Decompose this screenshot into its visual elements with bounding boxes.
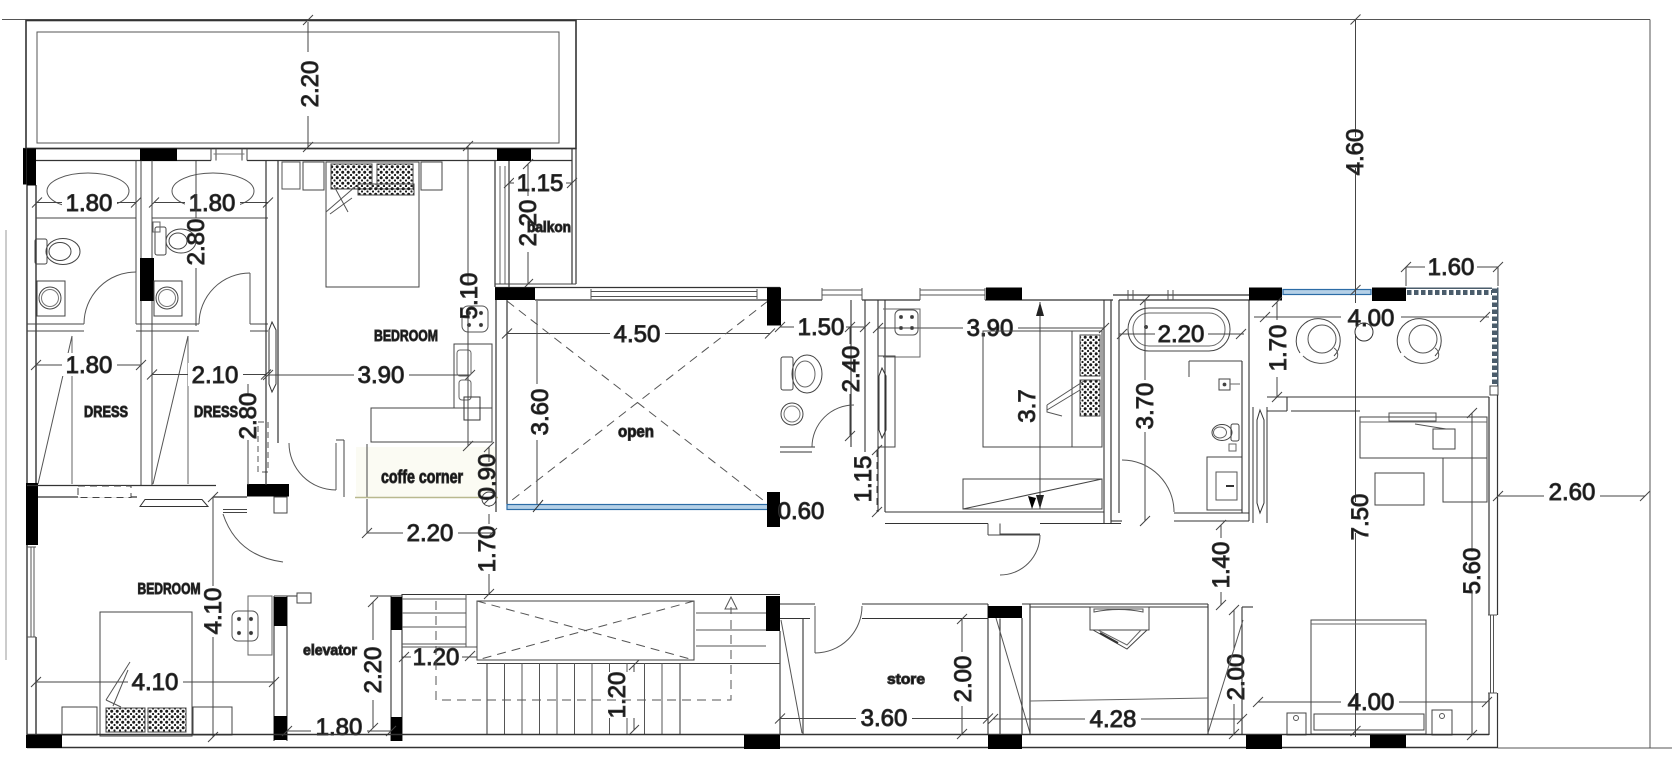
dashed path arrow bbox=[725, 597, 737, 609]
dim 4.28 bbox=[988, 714, 1247, 724]
dim 2.80 bath2 vertical bbox=[195, 161, 197, 218]
bedroom2 right wall bbox=[1104, 300, 1111, 523]
dim 1.50 wc bbox=[775, 322, 870, 332]
svg-text:4.60: 4.60 bbox=[1342, 129, 1369, 176]
open top black left bbox=[495, 288, 535, 301]
bath door arc bbox=[1122, 460, 1174, 512]
stairs right black bbox=[766, 596, 780, 631]
svg-text:1.80: 1.80 bbox=[316, 714, 363, 741]
toilet 1 bbox=[35, 239, 80, 265]
pocket door lens bbox=[1253, 407, 1267, 523]
crenellated top wall bbox=[1406, 288, 1492, 297]
svg-text:4.28: 4.28 bbox=[1090, 706, 1137, 733]
dim 3.60 store bbox=[775, 714, 993, 724]
svg-text:3.70: 3.70 bbox=[1132, 383, 1159, 430]
svg-text:1.60: 1.60 bbox=[1428, 254, 1475, 281]
svg-text:3.90: 3.90 bbox=[358, 362, 405, 389]
svg-text:1.20: 1.20 bbox=[604, 672, 631, 719]
bed1 bbox=[62, 612, 232, 736]
left wall black upper bbox=[27, 149, 36, 186]
dim 2.00 store bbox=[957, 614, 967, 739]
wc door arc bbox=[812, 405, 854, 447]
dim 1.70 hall bbox=[484, 514, 494, 599]
wardrobe dress2 bbox=[187, 336, 189, 484]
bed2 bbox=[983, 331, 1102, 447]
dim 2.40 wc bbox=[845, 322, 855, 441]
wall black B bbox=[140, 149, 177, 162]
stairs upper-right treads bbox=[696, 613, 766, 646]
elevator top rect bbox=[297, 593, 311, 603]
sink oval 1 bbox=[47, 173, 129, 209]
dim 2.80 dress2 vertical bbox=[247, 384, 249, 394]
dim 3.90 bedroom bbox=[263, 370, 475, 380]
svg-text:3.60: 3.60 bbox=[861, 705, 908, 732]
dim 2.20 elevator bbox=[368, 597, 378, 733]
bedroom left wall bbox=[266, 161, 278, 486]
dressing top black left bbox=[1249, 288, 1282, 301]
round chair 2 bbox=[1397, 319, 1441, 364]
open top wall bbox=[495, 288, 780, 301]
svg-text:2.00: 2.00 bbox=[950, 656, 977, 703]
terrace inner bbox=[37, 32, 559, 143]
terrace outer bbox=[26, 21, 576, 149]
dim 4.50 bbox=[502, 329, 775, 339]
bath top jambs bbox=[1128, 290, 1173, 300]
wc bottom wall bbox=[780, 447, 815, 452]
dim 1.80 bath2 bbox=[149, 198, 273, 208]
desk chair bedroom bbox=[462, 306, 488, 332]
counters bbox=[36, 217, 136, 219]
dim 2.20 balkon bbox=[523, 159, 533, 289]
wc toilet bbox=[781, 355, 822, 393]
dim 4.00 master bed bbox=[1253, 697, 1492, 707]
door diagonal dress1 bbox=[38, 336, 72, 484]
master bath left wall bbox=[1111, 300, 1119, 521]
wc top window bbox=[822, 288, 862, 300]
svg-text:0.90: 0.90 bbox=[474, 454, 501, 501]
svg-text:balkon: balkon bbox=[527, 219, 571, 236]
dashed wardrobe in wall bbox=[78, 486, 131, 498]
bathroom1 interior bbox=[27, 161, 268, 332]
elevator walls bbox=[274, 594, 402, 741]
store top-left black bbox=[767, 596, 780, 631]
bed top bedroom bbox=[303, 162, 442, 287]
svg-text:2.60: 2.60 bbox=[1549, 479, 1596, 506]
master bed bbox=[1287, 620, 1452, 735]
dim 1.20 lower rotated bbox=[629, 660, 639, 735]
svg-text:2.10: 2.10 bbox=[192, 362, 239, 389]
desk bedroom bbox=[371, 344, 492, 442]
bed2 top window bbox=[920, 288, 985, 300]
dim 1.20 upper bbox=[399, 651, 477, 662]
svg-text:2.20: 2.20 bbox=[297, 61, 324, 108]
bedroom2 bottom wall bbox=[885, 512, 1121, 524]
dim 3.70 bath bbox=[1140, 295, 1150, 526]
dim 3.90 bedroom2 bbox=[873, 323, 1109, 333]
dim 0.60 bbox=[781, 500, 827, 521]
svg-text:1.40: 1.40 bbox=[1208, 542, 1235, 589]
bedroom2 left wall bbox=[878, 300, 885, 512]
svg-text:2.20: 2.20 bbox=[360, 647, 387, 694]
dim 1.80 elevator bbox=[282, 726, 396, 736]
bed2 bench bbox=[963, 479, 1102, 509]
stairs lower treads bbox=[487, 663, 680, 734]
nook diagonals bbox=[1208, 620, 1243, 733]
svg-text:1.80: 1.80 bbox=[66, 190, 113, 217]
crenellated right wall bbox=[1490, 288, 1499, 395]
bedroom1 door leaf bbox=[223, 510, 247, 513]
dress partition bbox=[141, 331, 152, 485]
black block open bottom right bbox=[767, 492, 780, 527]
svg-text:4.00: 4.00 bbox=[1348, 689, 1395, 716]
svg-text:4.50: 4.50 bbox=[614, 321, 661, 348]
svg-text:5.10: 5.10 bbox=[456, 273, 483, 320]
dim 2.10 dress2 bbox=[147, 370, 271, 380]
svg-text:2.80: 2.80 bbox=[183, 219, 210, 266]
svg-text:4.10: 4.10 bbox=[132, 669, 179, 696]
dim 5.60 bbox=[1467, 408, 1477, 740]
dashed shaft dress2 bbox=[258, 422, 268, 472]
bath toilet bbox=[1212, 424, 1239, 451]
dressing top black right bbox=[1372, 288, 1406, 302]
master bedroom desk bbox=[1360, 413, 1487, 502]
dim chain vertical 4.60/7.50 bbox=[1351, 15, 1361, 738]
nook wall bbox=[1022, 604, 1253, 734]
bedroom2 door leaf bbox=[1000, 534, 1040, 536]
door diagonal dress2 bbox=[153, 336, 188, 484]
wall stub below black bbox=[274, 497, 287, 513]
dim 2.20 bath bbox=[1117, 329, 1246, 339]
closet rect bedroom top-left bbox=[282, 162, 300, 189]
tick on blue band bbox=[533, 500, 543, 512]
bedroom1 armchair table bbox=[232, 596, 272, 655]
bottom blacks bbox=[26, 735, 62, 748]
svg-text:BEDROOM: BEDROOM bbox=[138, 581, 201, 598]
open left wall bbox=[496, 300, 507, 512]
dim 4.10 horizontal bbox=[31, 677, 279, 687]
svg-text:elevator: elevator bbox=[303, 642, 357, 659]
store right columns bbox=[988, 604, 1000, 735]
dim 5.10 bbox=[463, 141, 473, 451]
dim 1.15 dashed bbox=[872, 445, 882, 517]
dim 3.7 arrows bbox=[1036, 302, 1044, 509]
dress bottom black right bbox=[247, 484, 289, 497]
balkon right wall bbox=[531, 149, 576, 285]
svg-text:1.70: 1.70 bbox=[474, 526, 501, 573]
bed2 top black bbox=[986, 288, 1022, 301]
dress bottom wall bbox=[27, 486, 289, 498]
dim 1.15 balkon bbox=[504, 178, 577, 188]
door jambs top wall bbox=[211, 149, 247, 161]
bath partition bbox=[1189, 361, 1242, 390]
svg-text:2.00: 2.00 bbox=[1223, 654, 1250, 701]
blue arrow bbox=[768, 503, 780, 511]
svg-text:2.20: 2.20 bbox=[407, 520, 454, 547]
right wall master bedroom bbox=[1489, 395, 1498, 748]
stairs dashed path bbox=[436, 601, 731, 700]
bath vanity bbox=[1207, 457, 1242, 510]
sliding lens shelf bbox=[140, 500, 208, 507]
open top black right bbox=[768, 288, 781, 326]
right wall window bbox=[1488, 615, 1497, 693]
black fill partition bbox=[140, 258, 154, 301]
dim 4.00 dressing bbox=[1254, 312, 1490, 322]
wc/bed2 top wall bbox=[780, 299, 1113, 301]
bedroom2 chair bbox=[883, 309, 920, 357]
master bath top wall bbox=[1113, 295, 1249, 300]
top wall row y148.5-160.5 bbox=[23, 149, 576, 161]
stairs X void bbox=[477, 601, 694, 660]
bathtub bbox=[1128, 308, 1230, 351]
dressing bottom wall bbox=[1267, 397, 1489, 411]
stairs top wall bbox=[402, 594, 780, 596]
wall black A corner bbox=[23, 149, 36, 185]
olive line bbox=[355, 497, 498, 499]
bedroom1 door arc bbox=[223, 514, 283, 562]
svg-text:4.00: 4.00 bbox=[1348, 305, 1395, 332]
washbasin 2 bbox=[154, 281, 182, 316]
svg-text:1.15: 1.15 bbox=[517, 170, 564, 197]
balkon bottom bbox=[495, 283, 576, 285]
dim 2.00 nook bbox=[1229, 605, 1239, 739]
wc right wall bbox=[851, 300, 865, 452]
master bedroom ottoman bbox=[1375, 473, 1424, 505]
dim 1.70 dressing bbox=[1272, 297, 1282, 402]
svg-text:3.90: 3.90 bbox=[967, 315, 1014, 342]
balkon left wall bbox=[495, 161, 509, 287]
svg-text:0.60: 0.60 bbox=[778, 498, 825, 525]
store door leaf + arc bbox=[815, 606, 862, 653]
dim 2.20 coffe bbox=[362, 499, 497, 538]
svg-text:store: store bbox=[887, 671, 925, 688]
blue window band open bbox=[507, 505, 768, 510]
dim 2.20 terrace bbox=[303, 15, 313, 152]
dim 1.80 bath1 bbox=[32, 198, 141, 208]
bedroom2 wardrobe bbox=[878, 356, 895, 447]
store top wall bbox=[780, 604, 988, 619]
dim 3.60 open bbox=[536, 301, 538, 504]
svg-text:1.80: 1.80 bbox=[66, 352, 113, 379]
store left wall bbox=[780, 619, 803, 735]
toilet 2 bbox=[153, 222, 196, 255]
bath bottom wall bbox=[27, 323, 84, 325]
wardrobe dress1 bbox=[71, 336, 73, 484]
dim 1.60 bbox=[1401, 262, 1503, 286]
svg-text:open: open bbox=[618, 422, 654, 441]
dim 0.90 bbox=[482, 442, 496, 507]
bath bottom wall bbox=[1111, 513, 1249, 521]
store right black bbox=[988, 606, 1022, 618]
dim 1.40 bbox=[1216, 520, 1226, 610]
door arc bath1 bbox=[84, 272, 136, 324]
sink oval 2 bbox=[172, 173, 254, 209]
stairs upper-left treads bbox=[402, 594, 477, 647]
svg-text:2.40: 2.40 bbox=[838, 346, 865, 393]
round chair 1 bbox=[1296, 319, 1340, 364]
svg-text:1.70: 1.70 bbox=[1265, 325, 1292, 372]
stairs rail line bbox=[477, 663, 780, 665]
mirror lens on bedroom wall bbox=[269, 322, 276, 392]
svg-text:3.7: 3.7 bbox=[1014, 389, 1041, 422]
bedroom2 door threshold bbox=[988, 524, 1000, 536]
store diagonals bbox=[996, 618, 1030, 733]
coffe corner boundary bbox=[336, 440, 367, 497]
svg-text:BEDROOM: BEDROOM bbox=[374, 328, 438, 345]
svg-text:DRESS: DRESS bbox=[84, 404, 128, 421]
svg-text:1.50: 1.50 bbox=[798, 314, 845, 341]
svg-text:2.80: 2.80 bbox=[235, 393, 262, 440]
dim 1.80 dress1 bbox=[31, 360, 146, 370]
open dashed X bbox=[507, 301, 768, 504]
svg-text:1.15: 1.15 bbox=[850, 456, 877, 503]
door arc bath2 bbox=[199, 273, 250, 324]
svg-text:2.20: 2.20 bbox=[1158, 321, 1205, 348]
elevator blacks bbox=[274, 597, 287, 626]
bottom exterior wall bbox=[27, 735, 1498, 748]
dim 4.10 vertical bbox=[208, 492, 218, 742]
bedroom2 door arc bbox=[1000, 535, 1040, 575]
store door diagonal bbox=[781, 620, 802, 733]
left wall window bbox=[27, 547, 36, 637]
small square end bbox=[1490, 386, 1498, 395]
wc top black bbox=[767, 288, 780, 326]
coffe corner area bbox=[356, 447, 496, 497]
svg-text:7.50: 7.50 bbox=[1347, 494, 1374, 541]
svg-text:coffe corner: coffe corner bbox=[381, 467, 463, 487]
washbasin 1 bbox=[37, 281, 65, 316]
open top window bbox=[591, 289, 757, 299]
dressing blue window bbox=[1283, 290, 1371, 295]
washbasin console bbox=[1090, 607, 1149, 649]
dim 2.60 bbox=[1493, 491, 1650, 501]
partition bath1/bath2 bbox=[135, 161, 137, 273]
left exterior wall bbox=[27, 149, 36, 748]
left wall black mid bbox=[26, 483, 38, 545]
wall black C balkon bbox=[497, 149, 531, 162]
bedroom door arc bbox=[289, 443, 336, 490]
svg-text:3.60: 3.60 bbox=[527, 389, 554, 436]
bath right wall bbox=[1242, 300, 1249, 521]
svg-text:4.10: 4.10 bbox=[200, 588, 227, 635]
svg-text:DRESS: DRESS bbox=[194, 404, 238, 421]
wc sink bbox=[781, 403, 803, 425]
svg-text:5.60: 5.60 bbox=[1459, 548, 1486, 595]
